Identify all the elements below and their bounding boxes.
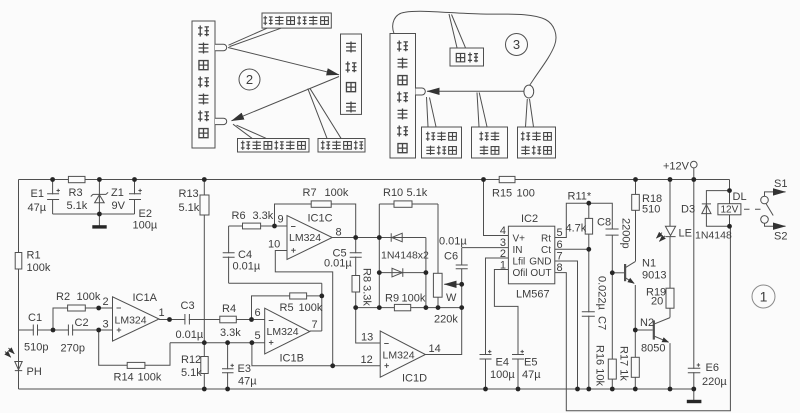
node rail E2 [132, 177, 137, 182]
svg-text:C7: C7 [596, 316, 608, 330]
svg-text:100µ: 100µ [133, 220, 158, 232]
IC2 LM567 box [508, 226, 554, 284]
wire IC1D output column through C6 [425, 248, 461, 355]
svg-text:270p: 270p [61, 343, 85, 355]
text: IR emitter tube (diagram 3, two lines) [521, 132, 530, 141]
beam: emitted ray arrow [228, 48, 339, 75]
node N2 base [633, 328, 638, 333]
node rail E1 [50, 177, 55, 182]
svg-text:R17 1k: R17 1k [618, 346, 630, 381]
node gnd E4 [483, 387, 488, 392]
node gnd N2 [668, 387, 673, 392]
wire C4 column [228, 226, 230, 283]
capacitor C7 [582, 312, 596, 316]
resistor R4 [220, 316, 237, 323]
S2 arrow [775, 225, 786, 227]
resistor R8 [352, 276, 360, 293]
relay contact circle lower [761, 216, 769, 224]
svg-text:E5: E5 [524, 357, 537, 369]
svg-text:100: 100 [517, 188, 535, 200]
wire IC1A output row through C3 R4 [159, 319, 265, 321]
svg-text:1: 1 [760, 289, 768, 305]
wire R2 branch [53, 308, 113, 330]
svg-text:4.7k: 4.7k [566, 223, 587, 235]
node R9 right [424, 305, 429, 310]
wire lower diode row [379, 272, 426, 274]
svg-text:8050: 8050 [641, 343, 665, 355]
relay contact circle upper [761, 196, 769, 204]
svg-text:3.3k: 3.3k [220, 327, 241, 339]
box: infrared light-control switch (diagram 3) [390, 34, 416, 159]
resistor R10 [394, 201, 412, 207]
wire Vref to pin12 [252, 343, 380, 366]
svg-text:8: 8 [557, 262, 563, 274]
wire E2 branch [134, 180, 136, 215]
node out col row [459, 305, 464, 310]
svg-text:IN: IN [513, 245, 523, 256]
diode D upper of 1N4148x2 [391, 233, 402, 242]
svg-text:10: 10 [268, 239, 280, 251]
resistor R15 [499, 176, 515, 182]
svg-text:220µ: 220µ [702, 376, 727, 388]
svg-text:14: 14 [429, 343, 441, 355]
svg-text:9V: 9V [112, 200, 126, 212]
text: IR light-control switch (diagram 2, vertical) [198, 26, 209, 37]
text: reflecting object (vertical) [346, 42, 356, 53]
svg-text:W: W [446, 292, 457, 304]
svg-text:PH: PH [27, 366, 42, 378]
svg-text:R14: R14 [114, 372, 134, 384]
svg-text:R16 10k: R16 10k [594, 345, 606, 386]
wire IC2 pin3 row [462, 247, 509, 249]
svg-text:1N4148x2: 1N4148x2 [381, 250, 429, 262]
capacitor C6 [456, 265, 468, 269]
text: IR light-control switch (diagram 3, vertical) [397, 41, 408, 52]
svg-text:0.01µ: 0.01µ [324, 258, 352, 270]
electrolytic E1 [47, 189, 60, 200]
text: infrared ray (diagram 2) [321, 141, 330, 150]
beam: ray arrow into switch (diagram 3) [427, 90, 524, 92]
wire S2 lead [765, 223, 774, 226]
wire LED R19 column [669, 180, 671, 318]
svg-text:V+: V+ [513, 234, 526, 245]
svg-text:DL: DL [733, 191, 747, 203]
svg-text:C3: C3 [181, 300, 195, 312]
resistor R1 [15, 253, 22, 270]
svg-text:R9: R9 [385, 293, 399, 305]
svg-text:R6: R6 [232, 210, 246, 222]
svg-text:0.01µ: 0.01µ [233, 261, 261, 273]
node rail LED [668, 177, 673, 182]
label box: infrared ray (diagram 2) [318, 139, 365, 153]
relay DL coil box [718, 204, 741, 215]
svg-text:2: 2 [103, 296, 109, 308]
svg-text:LE: LE [679, 228, 692, 240]
svg-text:5.1k: 5.1k [179, 202, 200, 214]
node rail 12V [691, 177, 696, 182]
svg-text:0.01µ: 0.01µ [439, 236, 467, 248]
bottom ground rail [19, 388, 695, 390]
svg-text:12: 12 [361, 354, 373, 366]
node N1 base [610, 270, 615, 275]
receiver tab (diagram 3) [416, 88, 426, 95]
svg-text:S1: S1 [774, 178, 787, 190]
resistor R3 [68, 176, 85, 182]
wire wiper to column [448, 283, 462, 285]
svg-text:1: 1 [159, 307, 165, 319]
svg-text:47µ: 47µ [28, 202, 47, 214]
emitter tube ellipse (diagram 3) [524, 85, 534, 98]
node rail Z1 [97, 177, 102, 182]
svg-text:R5: R5 [280, 302, 294, 314]
svg-text:2200p: 2200p [620, 218, 632, 249]
node pin3 [96, 328, 101, 333]
circle label 3 [506, 34, 528, 56]
ground symbol (E6) [687, 400, 702, 403]
callout wedge to receiver tab (diagram 3) [427, 97, 437, 127]
callout wedge to cable [449, 14, 466, 48]
wire R7 feedback loop [275, 204, 356, 238]
callout wedge to receiver tab [233, 124, 266, 138]
receiver tab bottom (diagram 2) [215, 118, 227, 124]
wire R10 loop [379, 204, 438, 308]
wire N2 emitter down [669, 343, 671, 389]
svg-text:LM324: LM324 [289, 232, 321, 244]
svg-text:D3: D3 [681, 204, 695, 216]
wire C1 C2 input row [19, 329, 113, 331]
left edge wire [18, 180, 20, 390]
callout wedge to emitter tab [229, 28, 282, 46]
svg-text:5: 5 [255, 330, 261, 342]
relay dashes [744, 208, 761, 210]
resistor R12 [201, 357, 208, 374]
svg-text:C6: C6 [444, 251, 458, 263]
resistor R2 [68, 305, 86, 311]
node wiper [459, 282, 464, 287]
text: infrared ray (diagram 3, two lines) [479, 132, 488, 141]
wire R12 column [203, 343, 205, 389]
label box: IR photo-sensor tube (diagram 2) [238, 139, 310, 153]
svg-text:R10: R10 [383, 187, 403, 199]
wire IC2 pin6 row [555, 248, 589, 250]
box: infrared light-control switch (diagram 2) [192, 21, 215, 148]
svg-text:0.022µ: 0.022µ [596, 276, 608, 311]
node relay bottom [727, 224, 732, 229]
capacitor C1 [33, 324, 37, 336]
node pin12 [330, 363, 335, 368]
node rail R18 [633, 177, 638, 182]
node gnd pin7 [575, 387, 580, 392]
node relay top [727, 188, 732, 193]
cable blob outline [393, 11, 556, 85]
svg-text:R13: R13 [179, 188, 199, 200]
electrolytic E4 [480, 350, 492, 359]
node R11 top [586, 201, 591, 206]
node C1-C2 [51, 328, 56, 333]
transistor N2 [654, 318, 670, 343]
label box: IR emitter tube (diagram 2) [262, 13, 331, 28]
diode D lower of 1N4148x2 [392, 268, 403, 277]
node rail R13 [202, 177, 207, 182]
svg-text:100k: 100k [299, 302, 323, 314]
op-amp IC1C [287, 216, 332, 260]
capacitor C4 [222, 253, 235, 258]
svg-text:LM324: LM324 [383, 350, 415, 362]
svg-text:47µ: 47µ [238, 376, 257, 388]
resistor R13 [200, 195, 209, 215]
node R8 bottom [353, 305, 358, 310]
svg-text:6: 6 [557, 239, 563, 251]
resistor R17 [631, 357, 639, 377]
wire R17 column [634, 330, 636, 389]
svg-text:20: 20 [651, 296, 663, 308]
svg-text:5.1k: 5.1k [67, 200, 88, 212]
svg-text:IC1D: IC1D [402, 373, 427, 385]
resistor R11 [585, 218, 592, 234]
wire R6 row [229, 225, 287, 227]
svg-text:5: 5 [557, 227, 563, 239]
text: IR photosensor tube (diagram 3, two lines) [426, 132, 435, 141]
relay contact blade [766, 203, 773, 215]
svg-text:R4: R4 [222, 303, 236, 315]
wire R14 feedback loop [99, 330, 170, 365]
svg-text:E4: E4 [496, 357, 509, 369]
wire N1 emitter to N2 base column [635, 285, 652, 330]
svg-text:47µ: 47µ [522, 369, 541, 381]
wire C4 coupling and feedback column [229, 283, 322, 331]
svg-text:R3: R3 [69, 187, 83, 199]
S1 arrow [775, 191, 786, 193]
svg-text:IC1C: IC1C [308, 213, 333, 225]
svg-text:3: 3 [103, 319, 109, 331]
svg-text:R11*: R11* [568, 191, 592, 203]
resistor R6 [243, 223, 261, 229]
svg-text:3: 3 [513, 37, 520, 52]
node diode bot right [424, 270, 429, 275]
wire +12V terminal stub [693, 168, 695, 180]
svg-text:7: 7 [312, 319, 318, 331]
wire IC2 pin5 loop to R11 top [555, 203, 613, 237]
svg-text:R7: R7 [303, 187, 317, 199]
resistor R18 [632, 194, 640, 210]
svg-text:8: 8 [336, 227, 342, 239]
wire pin13 route [356, 308, 381, 343]
node Z1 bottom [97, 212, 102, 217]
node R5 out [319, 294, 324, 299]
resistor R19 [666, 288, 674, 308]
svg-text:13: 13 [361, 332, 373, 344]
wire IC1B output [310, 330, 322, 332]
resistor R16 [608, 359, 616, 379]
svg-text:100k: 100k [325, 187, 349, 199]
capacitor C5 [350, 253, 362, 258]
svg-text:R12: R12 [181, 354, 201, 366]
svg-text:Rt: Rt [541, 234, 551, 245]
LED LE [656, 226, 675, 241]
svg-text:9: 9 [278, 214, 284, 226]
svg-text:C8: C8 [597, 217, 611, 229]
svg-text:E2: E2 [139, 208, 152, 220]
op-amp IC1B [265, 308, 310, 354]
resistor R14 [127, 362, 145, 368]
svg-text:0.01µ: 0.01µ [176, 329, 204, 341]
svg-text:C1: C1 [28, 312, 42, 324]
node gnd E6 [691, 387, 696, 392]
svg-text:100k: 100k [27, 262, 51, 274]
svg-text:1N4148: 1N4148 [695, 230, 732, 242]
capacitor C3 [185, 314, 190, 326]
svg-text:IC1B: IC1B [280, 353, 304, 365]
svg-text:100k: 100k [402, 293, 426, 305]
svg-text:R2: R2 [56, 291, 70, 303]
electrolytic E5 [512, 350, 524, 359]
svg-text:LM324: LM324 [115, 315, 147, 327]
node diode bot left [377, 270, 382, 275]
label box: IR emitter tube (diagram 3) [518, 127, 556, 158]
box: reflecting object [341, 34, 362, 114]
svg-text:C2: C2 [75, 317, 89, 329]
svg-text:Lfil: Lfil [513, 257, 526, 268]
svg-text:510: 510 [642, 204, 660, 216]
wire R5 feedback loop [252, 296, 322, 320]
circle label 1 [752, 285, 775, 308]
wire C5 R8 column [355, 238, 357, 308]
label box: infrared ray (diagram 3) [472, 127, 508, 158]
svg-text:5.1k: 5.1k [407, 187, 428, 199]
electrolytic E3 [222, 364, 234, 373]
wire Vref row [170, 342, 265, 344]
beam: reflected ray arrow [232, 77, 340, 121]
wire C8 R16 base column [611, 235, 613, 389]
svg-text:510p: 510p [24, 342, 48, 354]
wire IC2 pin8 relay loop [555, 226, 731, 410]
wire IC1C pin10 route [275, 251, 332, 366]
wire Z1 branch [98, 180, 100, 227]
wire R18 column [635, 180, 637, 262]
photodiode PH [5, 348, 22, 371]
resistor R9 [394, 304, 410, 310]
node IC1C out [353, 235, 358, 240]
potentiometer W wiper arrow [444, 283, 462, 285]
op-amp IC1A [113, 297, 160, 341]
ground symbol (power section) [92, 225, 106, 228]
node vref E3 [225, 340, 230, 345]
capacitor C8 [606, 229, 620, 235]
node pot bottom [436, 305, 441, 310]
node R11 bottom [586, 247, 591, 252]
wire E6 column [693, 180, 695, 401]
node rail V+ [481, 177, 486, 182]
svg-text:N2: N2 [640, 317, 654, 329]
label box: IR photo-sensor tube (diagram 3) [422, 127, 462, 158]
op-amp IC1D [380, 331, 425, 377]
wire S1 lead [765, 192, 774, 196]
node pin2 [96, 306, 101, 311]
svg-text:9013: 9013 [642, 270, 666, 282]
svg-text:6: 6 [255, 307, 261, 319]
electrolytic E6 [688, 363, 701, 372]
wire E1 branch [52, 180, 54, 215]
wire IC2 pin1 to E5 [494, 270, 518, 390]
emitter tab top (diagram 2) [215, 44, 227, 50]
svg-text:Z1: Z1 [111, 187, 124, 199]
capacitor C2 [68, 324, 72, 336]
svg-text:220k: 220k [434, 314, 458, 326]
wire IC1C output row to diodes [332, 237, 426, 239]
diode D3 [702, 204, 711, 214]
wire R11 C7 column [588, 203, 590, 389]
svg-text:12V: 12V [721, 205, 739, 216]
label box: cable [450, 48, 484, 66]
wire IC2 pin4 V+ branch [484, 180, 509, 236]
svg-text:LM324: LM324 [267, 326, 299, 338]
svg-text:2: 2 [500, 248, 506, 260]
svg-text:5.1k: 5.1k [181, 367, 202, 379]
svg-text:GND: GND [529, 257, 551, 268]
node gnd C7 [586, 387, 591, 392]
zener Z1 [91, 192, 108, 203]
svg-text:4: 4 [500, 225, 506, 237]
wire R13 column [203, 180, 205, 343]
node diode col row [377, 305, 382, 310]
resistor R5 [290, 293, 307, 299]
node gnd E5 [516, 387, 521, 392]
svg-text:S2: S2 [774, 231, 787, 243]
resistor R7 [311, 201, 331, 207]
svg-text:100k: 100k [77, 291, 101, 303]
node diode top left [377, 235, 382, 240]
svg-text:R1: R1 [27, 250, 41, 262]
svg-text:Ct: Ct [541, 245, 551, 256]
svg-text:IC2: IC2 [521, 213, 538, 225]
node gnd R12 [202, 387, 207, 392]
node gnd R17 [633, 387, 638, 392]
top +12V rail [19, 179, 730, 181]
node vref R12 [202, 340, 207, 345]
svg-text:E3: E3 [238, 363, 251, 375]
wire N1 base stub [612, 272, 624, 274]
svg-text:R8 3.3k: R8 3.3k [361, 268, 373, 306]
node IC1A out [167, 317, 172, 322]
svg-text:LM567: LM567 [516, 289, 550, 301]
node gnd E3 [225, 387, 230, 392]
svg-text:N1: N1 [642, 258, 656, 270]
electrolytic E2 [129, 189, 142, 200]
text: cable [456, 53, 464, 61]
node gnd R16 [610, 387, 615, 392]
svg-text:C4: C4 [238, 249, 252, 261]
text: IR photosensor tube (diagram 2) [241, 141, 250, 150]
callout wedge to beam (diagram 3) [477, 93, 487, 127]
svg-text:100k: 100k [138, 372, 162, 384]
circle label 2 [239, 69, 260, 90]
callout wedge to emitter ellipse (diagram 3) [526, 99, 534, 127]
wire D3 loop [706, 191, 729, 227]
transistor N1 [625, 261, 635, 283]
wire E3 column [227, 343, 229, 389]
node vref pin5 [250, 340, 255, 345]
wire IC2 pin7 ground [555, 261, 578, 389]
IC2 pin names [513, 234, 552, 280]
wire diode right column [425, 238, 427, 308]
svg-text:E6: E6 [706, 362, 719, 374]
wire relay coil column [729, 180, 731, 227]
wire E1-Z1-E2 bottom link [53, 213, 135, 215]
svg-text:7: 7 [557, 251, 563, 263]
callout wedge to reflected beam [308, 88, 341, 138]
svg-text:3.3k: 3.3k [253, 210, 274, 222]
svg-text:IC1A: IC1A [133, 292, 158, 304]
